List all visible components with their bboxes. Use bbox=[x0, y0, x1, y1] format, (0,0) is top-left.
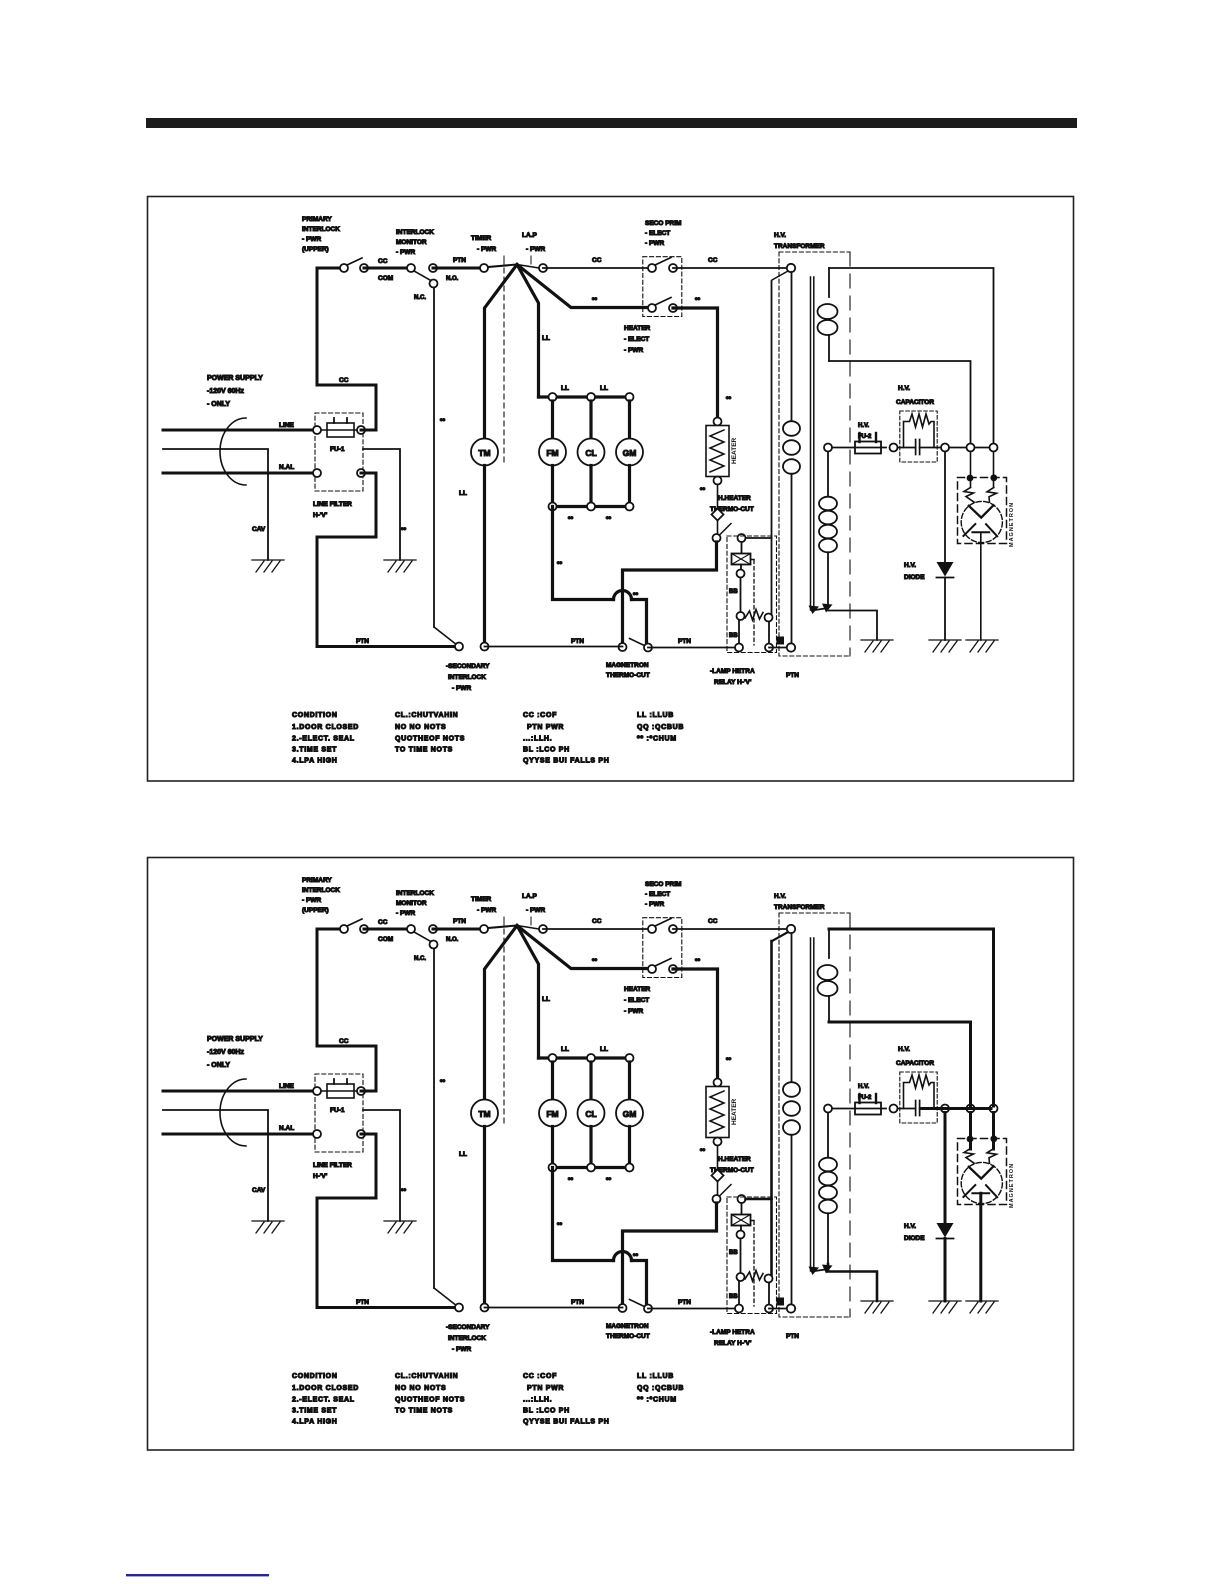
wire thick diode branch (bottom schematic) bbox=[944, 1113, 947, 1224]
wire thick magnetron leads (bottom schematic) bbox=[969, 1113, 972, 1150]
footer blue rule bbox=[126, 1574, 269, 1576]
wire thick secondary ground link (bottom schematic) bbox=[828, 1264, 877, 1301]
wire thick magnetron cathode ground (bottom schematic) bbox=[979, 1193, 982, 1301]
frame of top schematic bbox=[148, 197, 1074, 782]
top schematic bbox=[163, 216, 1015, 765]
wire thick relay feed (bottom schematic) bbox=[772, 932, 788, 941]
wire thick filament bottom (bottom schematic) bbox=[829, 1022, 971, 1106]
header bar bbox=[146, 118, 1077, 128]
frame of bottom schematic bbox=[148, 858, 1074, 1451]
wire thick filament top (bottom schematic) bbox=[829, 929, 994, 1106]
bottom schematic bbox=[163, 877, 1015, 1426]
wire thick HV row right (bottom schematic) bbox=[921, 1107, 991, 1110]
